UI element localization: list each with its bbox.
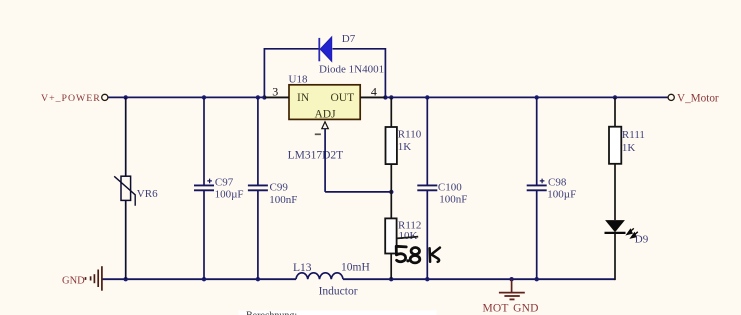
svg-text:V_Motor: V_Motor — [677, 92, 719, 104]
svg-text:OUT: OUT — [331, 92, 355, 104]
wire bottom rail right — [343, 278, 615, 280]
svg-text:10mH: 10mH — [341, 262, 370, 274]
svg-text:C97: C97 — [215, 177, 234, 189]
svg-text:C98: C98 — [548, 177, 567, 189]
svg-text:Berechnung:: Berechnung: — [246, 311, 297, 315]
svg-text:C100: C100 — [438, 181, 462, 193]
wire R111 to D9 — [614, 164, 616, 220]
svg-text:IN: IN — [297, 92, 310, 104]
svg-text:ADJ: ADJ — [315, 108, 337, 120]
capacitor C100 — [417, 97, 467, 279]
varistor VR6 — [114, 97, 158, 279]
wire R110 to R112 — [390, 164, 392, 218]
svg-text:R111: R111 — [622, 129, 645, 141]
resistor R110 — [386, 97, 422, 164]
diode D7 bypass wires — [264, 49, 385, 98]
svg-text:U18: U18 — [289, 73, 308, 85]
wire ADJ to divider node — [325, 191, 391, 193]
resistor R111 — [609, 97, 645, 163]
svg-text:GND: GND — [62, 276, 85, 287]
svg-text:100µF: 100µF — [215, 189, 244, 201]
svg-text:100µF: 100µF — [547, 189, 576, 201]
node junction dots bottom rail — [124, 277, 539, 281]
resistor R112 — [385, 218, 421, 279]
svg-text:LM317D2T: LM317D2T — [288, 149, 344, 161]
svg-text:1K: 1K — [622, 142, 636, 154]
diode D7 — [319, 33, 384, 76]
svg-text:L13: L13 — [293, 262, 312, 274]
strike-through on 10K value — [397, 237, 418, 239]
node ADJ divider junction — [389, 190, 393, 194]
ground MOT_GND — [483, 279, 539, 314]
wire D9 to bottom rail — [614, 234, 616, 281]
svg-text:C99: C99 — [270, 181, 289, 193]
terminal V+_POWER — [41, 93, 108, 104]
svg-text:Inductor: Inductor — [319, 286, 358, 298]
svg-text:MOT GND: MOT GND — [483, 303, 539, 315]
LED D9 — [605, 220, 649, 245]
svg-text:D9: D9 — [635, 233, 649, 245]
svg-text:D7: D7 — [342, 33, 356, 45]
annotation band Berechnung — [239, 310, 437, 315]
ground GND — [62, 266, 102, 291]
svg-text:1K: 1K — [398, 141, 412, 153]
svg-text:100nF: 100nF — [269, 194, 297, 206]
handwritten annotation 5.8K — [396, 246, 440, 263]
pin 3 stub — [264, 84, 289, 98]
pin 4 stub — [360, 84, 385, 98]
svg-text:VR6: VR6 — [137, 188, 158, 200]
svg-text:100nF: 100nF — [439, 194, 467, 206]
op-amp U18 regulator LM317 — [288, 73, 361, 161]
capacitor C97 — [194, 97, 244, 279]
terminal V_Motor — [668, 92, 719, 104]
svg-text:3: 3 — [272, 84, 278, 98]
wire bottom rail left — [103, 278, 297, 280]
inductor L13 — [293, 262, 370, 298]
svg-text:4: 4 — [371, 84, 377, 98]
svg-text:R110: R110 — [398, 129, 422, 141]
wire top rail right — [360, 96, 668, 98]
svg-text:V+_POWER: V+_POWER — [41, 93, 101, 104]
svg-text:Diode 1N4001: Diode 1N4001 — [319, 63, 384, 75]
capacitor C98 — [527, 97, 577, 279]
wire top rail left — [108, 96, 289, 98]
node junction dots top rail — [124, 95, 618, 99]
capacitor C99 — [248, 97, 298, 279]
pin ADJ arrow and wire — [315, 122, 329, 192]
